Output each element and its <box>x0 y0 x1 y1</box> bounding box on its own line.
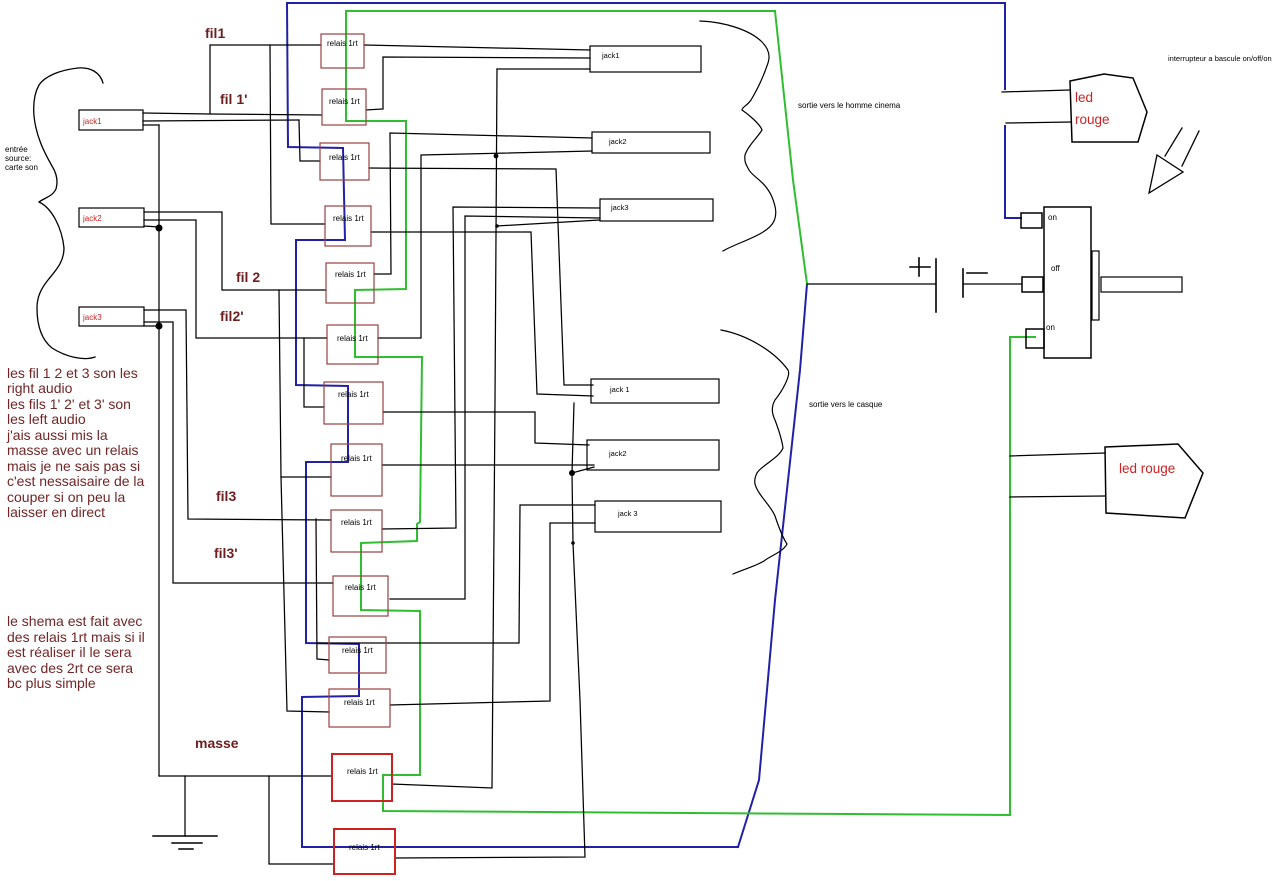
svg-text:avec des 2rt ce sera: avec des 2rt ce sera <box>7 660 133 676</box>
wire blue right drop to led1 <box>1004 3 1006 89</box>
wire relais K10 to out jack3 lower <box>390 216 599 599</box>
junction dot out jack3 common <box>495 224 499 228</box>
wire green K13 to bottom run <box>383 775 1010 815</box>
wire relais K8 to casque jack2 lower <box>382 464 594 466</box>
svg-text:led rouge: led rouge <box>1119 461 1175 476</box>
jack out2 cinema <box>592 132 710 153</box>
wire casque jack3 upper to node fil3 branch <box>317 505 595 643</box>
wire casque jack3 lower to relais K12 <box>390 523 595 705</box>
svg-text:jack 1: jack 1 <box>609 385 630 394</box>
svg-text:relais 1rt: relais 1rt <box>333 214 364 223</box>
jack J2 input <box>79 208 144 227</box>
relay K7 <box>324 382 383 424</box>
svg-text:relais 1rt: relais 1rt <box>335 270 366 279</box>
relay K13 <box>332 754 392 801</box>
wire out jack3 third pin slant <box>497 220 599 226</box>
svg-text:masse avec un relais: masse avec un relais <box>7 442 139 458</box>
svg-text:fil3: fil3 <box>216 488 236 504</box>
wire casque common vertical to relais K14 <box>395 403 585 858</box>
svg-text:jack2: jack2 <box>608 449 627 458</box>
wire green riser to switch on-bottom <box>1010 337 1035 815</box>
relay K3 <box>320 143 369 180</box>
svg-text:jack2: jack2 <box>82 214 102 223</box>
switch S1 pin off <box>1022 277 1043 292</box>
switch S1 body <box>1044 207 1091 358</box>
wire masse bus vertical <box>158 125 160 776</box>
wire green serpentine K9-K10 <box>361 543 420 611</box>
wire led2 anode <box>1010 453 1105 456</box>
relay K4 <box>325 206 371 246</box>
wire casque jack2 slant to common <box>572 467 594 473</box>
svg-text:rouge: rouge <box>1075 112 1110 127</box>
wire jack1 ground stub to masse bus <box>143 124 159 126</box>
wire out jack1 pin to common vertical <box>497 68 590 70</box>
wire fil2 branch to relais K8 <box>279 290 331 477</box>
svg-text:bc plus simple: bc plus simple <box>7 675 96 691</box>
led D1 <box>1070 74 1147 142</box>
svg-text:c'est nessaisaire de la: c'est nessaisaire de la <box>7 473 145 489</box>
svg-text:carte son: carte son <box>5 163 38 172</box>
svg-text:jack3: jack3 <box>82 313 102 322</box>
wire blue left drop to relais K3 <box>287 3 343 148</box>
brace casque group <box>721 330 789 574</box>
svg-text:relais 1rt: relais 1rt <box>341 454 372 463</box>
ground symbol <box>153 836 217 849</box>
svg-text:jack1: jack1 <box>82 117 102 126</box>
relay K14 <box>334 829 395 874</box>
svg-text:fil 1': fil 1' <box>220 91 247 107</box>
relay K8 <box>331 444 382 496</box>
wire relais K9 to out jack3 upper <box>382 207 599 529</box>
arrow toward switch <box>1149 128 1199 193</box>
svg-text:les fil 1 2 et 3 son les: les fil 1 2 et 3 son les <box>7 365 138 381</box>
wire blue serpentine K7-K8 <box>306 386 348 462</box>
svg-text:relais 1rt: relais 1rt <box>347 767 378 776</box>
brace cinema group <box>700 21 776 251</box>
svg-text:sortie vers le homme cinema: sortie vers le homme cinema <box>798 101 901 110</box>
svg-text:jack1: jack1 <box>601 51 620 60</box>
svg-text:relais 1rt: relais 1rt <box>338 390 369 399</box>
wire masse run to relais K13 <box>159 775 332 777</box>
relay K11 <box>329 637 386 673</box>
wire fil3prime jack3 lower to relais K10 <box>144 322 333 583</box>
wire relais K4 to casque jack1 lower <box>371 232 593 396</box>
wire battery to switch center <box>963 283 1022 285</box>
wire fil3 jack3 upper to relais K9 <box>144 310 331 520</box>
battery B1 <box>910 258 987 312</box>
svg-text:relais 1rt: relais 1rt <box>337 334 368 343</box>
wire jack3 ground stub <box>144 325 159 327</box>
wire green drop to relais K9 <box>361 357 422 543</box>
svg-text:couper si on peu la: couper si on peu la <box>7 489 126 505</box>
switch S1 pin on-top <box>1021 213 1042 228</box>
svg-text:on: on <box>1046 323 1055 332</box>
brace input group <box>34 68 103 359</box>
led D2 <box>1105 444 1203 518</box>
svg-text:masse: masse <box>195 735 239 751</box>
svg-text:fil 2: fil 2 <box>236 269 260 285</box>
svg-text:laisser en direct: laisser en direct <box>7 504 105 520</box>
relay K12 <box>329 689 390 727</box>
svg-text:relais 1rt: relais 1rt <box>344 698 375 707</box>
svg-text:le shema est fait avec: le shema est fait avec <box>7 613 142 629</box>
wire relais K7 to casque jack2 upper <box>383 412 589 445</box>
wire led1 anode <box>1002 90 1069 92</box>
svg-text:right audio: right audio <box>7 380 73 396</box>
switch S1 pin on-bottom <box>1026 329 1044 348</box>
svg-text:mais je ne sais pas si: mais je ne sais pas si <box>7 458 140 474</box>
jack out3 cinema <box>600 199 713 221</box>
svg-text:relais 1rt: relais 1rt <box>329 97 360 106</box>
svg-text:fil2': fil2' <box>220 308 244 324</box>
wire fil2 jack2 upper to relais K5 <box>144 212 326 290</box>
wire relais K1 to out jack1 upper <box>364 45 590 50</box>
wire blue led1 to switch on-top <box>1005 126 1021 218</box>
svg-text:relais 1rt: relais 1rt <box>349 843 380 852</box>
svg-text:fil1: fil1 <box>205 25 225 41</box>
wire fil1 jack1 upper to relais K2 <box>143 113 322 115</box>
wire fil2prime jack2 lower to relais K6 <box>144 220 327 338</box>
svg-text:off: off <box>1051 264 1061 273</box>
svg-text:jack 3: jack 3 <box>617 509 638 518</box>
wire relais K6 to out jack2 lower <box>378 151 592 338</box>
wire led1 cathode <box>1006 122 1071 123</box>
svg-text:interrupteur a bascule on/off/: interrupteur a bascule on/off/on <box>1168 54 1272 63</box>
relay K6 <box>327 325 378 364</box>
relay K10 <box>333 576 388 616</box>
wire blue K12 down to bottom run <box>302 697 738 847</box>
wire fil1 riser to relais K1 <box>210 45 321 113</box>
wire green drop to relais K13 <box>383 611 420 775</box>
svg-text:jack2: jack2 <box>608 137 627 146</box>
wire fil1prime drop to relais K3 <box>299 120 320 161</box>
junction dot jack2 ground <box>156 225 163 232</box>
junction dot casque jack3 common <box>571 541 575 545</box>
wire blue serpentine K3-K4 <box>296 148 345 240</box>
wire relais K2 to out jack1 lower <box>366 57 590 110</box>
switch S1 lever <box>1101 277 1182 292</box>
wire ground stub <box>184 776 186 836</box>
relay K9 <box>331 510 382 552</box>
wire blue slanted riser to battery node <box>738 284 807 847</box>
wire blue K8 to K11 <box>306 462 359 644</box>
wire battery node to battery <box>807 283 935 285</box>
jack J3 input <box>79 307 144 326</box>
wire led2 cathode <box>1010 496 1105 497</box>
jack out3 casque <box>595 501 721 532</box>
wire fil1prime jack1 lower <box>143 120 299 121</box>
jack out1 casque <box>591 379 719 403</box>
svg-text:des relais 1rt mais si il: des relais 1rt mais si il <box>7 629 145 645</box>
wire masse branch to relais K14 <box>269 776 334 864</box>
svg-text:les left audio: les left audio <box>7 411 86 427</box>
wire green drop to relais K5 <box>355 121 406 290</box>
wire relais K5 to out jack2 upper <box>374 133 592 274</box>
svg-text:relais 1rt: relais 1rt <box>341 518 372 527</box>
wire blue K4 to K7 <box>296 240 348 386</box>
svg-text:on: on <box>1048 213 1057 222</box>
wire fil1 branch to relais K4 <box>270 45 325 224</box>
svg-text:relais 1rt: relais 1rt <box>342 646 373 655</box>
jack J1 input <box>79 110 143 130</box>
wire fil3 branch to relais K11 <box>316 519 329 660</box>
wire green top bus <box>346 10 775 12</box>
svg-text:j'ais aussi mis la: j'ais aussi mis la <box>6 427 108 443</box>
svg-text:relais 1rt: relais 1rt <box>327 39 358 48</box>
jack out1 cinema <box>590 46 701 72</box>
junction dot casque jack2 common <box>569 470 575 476</box>
svg-text:sortie vers le casque: sortie vers le casque <box>809 400 883 409</box>
switch S1 pivot <box>1092 251 1099 320</box>
wire jack2 ground stub <box>144 226 159 227</box>
svg-text:source:: source: <box>5 154 31 163</box>
svg-text:entrée: entrée <box>5 145 28 154</box>
wire relais K3 to casque jack1 upper <box>369 168 593 385</box>
svg-text:led: led <box>1075 90 1093 105</box>
wire fil2prime branch to relais K7 <box>304 338 324 407</box>
wire blue top bus <box>287 2 1005 4</box>
svg-text:fil3': fil3' <box>214 545 238 561</box>
wire blue serpentine K11-K12 <box>302 644 359 697</box>
junction dot jack3 ground <box>156 323 163 330</box>
junction dot out jack2 common <box>494 154 499 159</box>
svg-text:relais 1rt: relais 1rt <box>329 153 360 162</box>
svg-text:les fils 1' 2' et 3' son: les fils 1' 2' et 3' son <box>7 396 131 412</box>
svg-text:est réaliser il le sera: est réaliser il le sera <box>7 644 132 660</box>
wire cinema common vertical to relais K13 <box>392 69 497 788</box>
wire green left drop through relais K1 K2 <box>346 11 406 121</box>
wire green serpentine K5-K6 <box>355 290 422 357</box>
wire green slanted drop to battery node <box>775 11 807 284</box>
svg-text:jack3: jack3 <box>610 203 629 212</box>
svg-text:relais 1rt: relais 1rt <box>345 583 376 592</box>
wire fil2 branch continues to relais K12 <box>281 477 329 712</box>
jack out2 casque <box>587 440 719 470</box>
relay K2 <box>322 89 366 125</box>
relay K5 <box>326 263 374 303</box>
relay K1 <box>321 34 364 68</box>
